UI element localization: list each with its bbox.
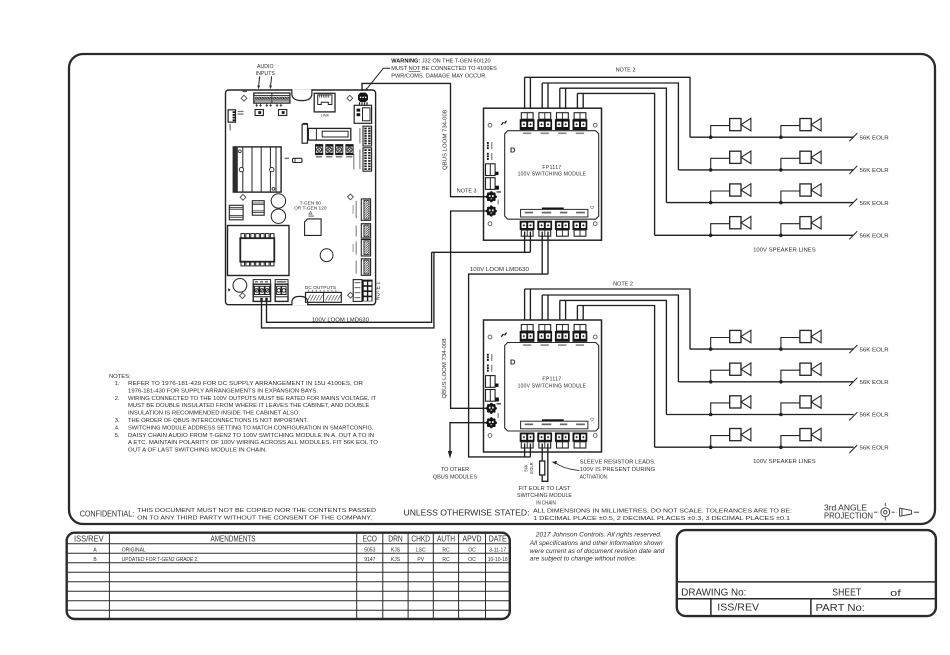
svg-text:INPUTS: INPUTS [256, 71, 275, 77]
svg-text:DATE: DATE [489, 535, 507, 544]
svg-text:AMENDMENTS: AMENDMENTS [211, 535, 256, 544]
svg-text:WIRING CONNECTED TO THE 100V O: WIRING CONNECTED TO THE 100V OUTPUTS MUS… [128, 396, 377, 402]
svg-text:2017 Johnson Controls. All rig: 2017 Johnson Controls. All rights reserv… [535, 532, 662, 539]
svg-text:RC: RC [442, 557, 450, 563]
svg-text:SHEET: SHEET [832, 588, 861, 599]
svg-text:OUT A OF LAST SWITCHING MODULE: OUT A OF LAST SWITCHING MODULE IN CHAIN. [128, 448, 267, 454]
svg-text:NOTES:: NOTES: [109, 374, 131, 380]
svg-text:QBUS LOOM 734-008: QBUS LOOM 734-008 [442, 338, 448, 398]
svg-text:NOTE 2: NOTE 2 [613, 281, 633, 287]
svg-text:AUTH: AUTH [437, 535, 455, 544]
svg-text:3.: 3. [115, 418, 120, 424]
svg-text:ISS/REV: ISS/REV [74, 535, 104, 544]
svg-text:56K EOLR: 56K EOLR [860, 347, 889, 353]
svg-text:2.: 2. [115, 396, 120, 402]
svg-text:56K EOLR: 56K EOLR [860, 413, 889, 419]
svg-text:SLEEVE RESISTOR LEADS.: SLEEVE RESISTOR LEADS. [580, 460, 656, 466]
svg-text:56K EOLR: 56K EOLR [860, 380, 889, 386]
svg-text:KJS: KJS [391, 547, 401, 553]
svg-text:ALL DIMENSIONS IN MILLIMETRES.: ALL DIMENSIONS IN MILLIMETRES. DO NOT SC… [533, 508, 792, 514]
svg-text:OC: OC [468, 547, 476, 553]
svg-text:100V LOOM LMD630: 100V LOOM LMD630 [312, 317, 369, 323]
svg-text:OC: OC [468, 557, 476, 563]
svg-text:5053: 5053 [364, 547, 375, 553]
svg-text:LSC: LSC [416, 547, 426, 553]
svg-text:MUST BE DOUBLE INSULATED FROM: MUST BE DOUBLE INSULATED FROM WHERE IT L… [128, 403, 369, 409]
svg-text:56K: 56K [524, 464, 529, 472]
svg-text:56K EOLR: 56K EOLR [860, 445, 889, 451]
svg-text:are subject to change without: are subject to change without notice. [530, 556, 637, 563]
svg-text:1.: 1. [115, 381, 120, 387]
svg-text:100V SPEAKER LINES: 100V SPEAKER LINES [753, 459, 816, 465]
svg-text:9147: 9147 [364, 557, 375, 563]
svg-text:NOTE 2: NOTE 2 [616, 68, 636, 74]
svg-text:56K EOLR: 56K EOLR [860, 234, 889, 240]
svg-text:UNLESS OTHERWISE STATED:: UNLESS OTHERWISE STATED: [404, 509, 530, 518]
svg-text:ACTIVATION.: ACTIVATION. [580, 475, 609, 481]
svg-text:56K EOLR: 56K EOLR [860, 201, 889, 207]
svg-text:All specifications and other i: All specifications and other information… [529, 540, 663, 547]
svg-text:1976-181-430 FOR SUPPLY ARRANG: 1976-181-430 FOR SUPPLY ARRANGEMENTS IN … [128, 388, 318, 394]
svg-text:REFER TO 1976-181-429 FOR DC S: REFER TO 1976-181-429 FOR DC SUPPLY ARRA… [128, 381, 363, 387]
svg-text:56K EOLR: 56K EOLR [860, 168, 889, 174]
svg-text:of: of [890, 588, 901, 598]
svg-text:NOTE 1: NOTE 1 [375, 281, 382, 300]
svg-text:THIS DOCUMENT MUST NOT BE COPI: THIS DOCUMENT MUST NOT BE COPIED NOR THE… [137, 508, 376, 514]
svg-text:CHKD: CHKD [411, 535, 430, 544]
svg-text:B: B [93, 557, 97, 563]
svg-text:DRN: DRN [388, 535, 403, 544]
svg-text:AUDIO: AUDIO [257, 64, 274, 70]
svg-text:DRAWING No:: DRAWING No: [681, 588, 746, 599]
svg-text:CONFIDENTIAL:: CONFIDENTIAL: [80, 510, 135, 519]
svg-text:A ETC. MAINTAIN POLARITY OF 10: A ETC. MAINTAIN POLARITY OF 100V WIRING … [128, 440, 378, 446]
svg-text:INSULATION IS RECOMMENDED INSI: INSULATION IS RECOMMENDED INSIDE THE CAB… [128, 411, 300, 417]
svg-text:were current as of document re: were current as of document revision dat… [530, 548, 665, 555]
svg-text:OR T-GEN 120: OR T-GEN 120 [294, 206, 327, 212]
svg-text:WARNING: J32 ON THE T-GEN 60/1: WARNING: J32 ON THE T-GEN 60/120 [391, 58, 490, 64]
svg-text:LINK: LINK [321, 114, 330, 118]
svg-text:QBUS MODULES: QBUS MODULES [433, 474, 478, 480]
svg-text:5.: 5. [115, 433, 120, 439]
svg-text:NOTE 3: NOTE 3 [457, 189, 477, 195]
svg-text:A: A [93, 547, 97, 553]
svg-text:SWITCHING MODULE: SWITCHING MODULE [517, 493, 572, 499]
svg-text:100V LOOM LMD630: 100V LOOM LMD630 [470, 267, 529, 273]
svg-text:APVD: APVD [463, 535, 482, 544]
svg-text:SWITCHING MODULE ADDRESS SETTI: SWITCHING MODULE ADDRESS SETTING TO MATC… [128, 425, 374, 431]
svg-text:KJS: KJS [391, 557, 401, 563]
svg-text:FIT EOLR TO LAST: FIT EOLR TO LAST [519, 486, 572, 492]
svg-text:MUST NOT BE CONNECTED TO 4100E: MUST NOT BE CONNECTED TO 4100ES [391, 66, 497, 72]
svg-text:TO OTHER: TO OTHER [441, 467, 469, 473]
svg-text:EOLR: EOLR [529, 462, 534, 473]
svg-text:RC: RC [442, 547, 450, 553]
svg-text:ON TO ANY THIRD PARTY WITHOUT: ON TO ANY THIRD PARTY WITHOUT THE CONSEN… [137, 516, 372, 522]
svg-text:PV: PV [417, 557, 424, 563]
svg-text:3-11-17: 3-11-17 [489, 547, 506, 553]
svg-text:PART No:: PART No: [816, 603, 865, 614]
svg-text:ECO: ECO [363, 535, 377, 544]
svg-text:IN CHAIN: IN CHAIN [536, 500, 556, 506]
svg-text:THE ORDER OF QBUS INTERCONNECT: THE ORDER OF QBUS INTERCONNECTIONS IS NO… [128, 418, 308, 424]
svg-text:100V IS PRESENT DURING: 100V IS PRESENT DURING [580, 467, 655, 473]
svg-text:PWR/COMS. DAMAGE MAY OCCUR.: PWR/COMS. DAMAGE MAY OCCUR. [391, 74, 487, 80]
svg-text:56K EOLR: 56K EOLR [860, 135, 889, 141]
svg-text:100V SPEAKER LINES: 100V SPEAKER LINES [753, 247, 816, 253]
svg-text:ISS/REV: ISS/REV [717, 603, 759, 614]
svg-text:ORIGINAL: ORIGINAL [122, 547, 146, 553]
svg-text:T-GEN 60: T-GEN 60 [300, 200, 322, 206]
svg-text:DAISY CHAIN AUDIO FROM T-GEN2: DAISY CHAIN AUDIO FROM T-GEN2 TO 100V SW… [128, 433, 374, 439]
svg-text:QBUS LOOM 734-008: QBUS LOOM 734-008 [442, 110, 448, 170]
svg-text:4.: 4. [115, 425, 120, 431]
svg-text:10-10-18: 10-10-18 [488, 557, 508, 563]
svg-text:UPDATED FOR T-GEN2 GRADE 2.: UPDATED FOR T-GEN2 GRADE 2. [122, 557, 199, 563]
svg-text:PROJECTION: PROJECTION [824, 512, 873, 521]
svg-text:1 DECIMAL PLACE ±0.5, 2 DECIMA: 1 DECIMAL PLACE ±0.5, 2 DECIMAL PLACES ±… [533, 516, 790, 522]
